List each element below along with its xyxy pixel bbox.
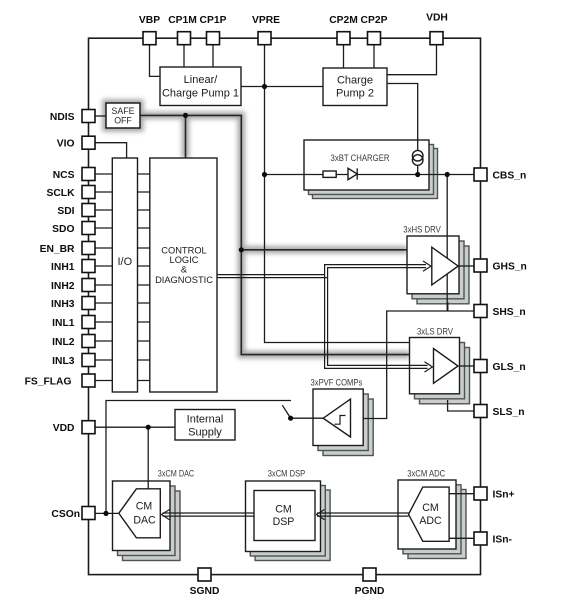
block U10 3xCM DAC (stacked) xyxy=(113,481,181,561)
svg-text:INL1: INL1 xyxy=(52,318,75,329)
block U9 Internal Supply xyxy=(175,410,235,441)
pin ISn+ xyxy=(474,487,515,501)
pin CSOn xyxy=(51,507,95,521)
svg-text:LOGIC: LOGIC xyxy=(170,255,199,265)
wire CP2M to U2 xyxy=(343,45,345,68)
wire ISn+ to U12 xyxy=(449,493,474,495)
svg-text:VBP: VBP xyxy=(139,15,160,26)
wire ladder U7 to U8 xyxy=(138,174,150,381)
svg-text:Supply: Supply xyxy=(188,427,222,439)
pin INH3 xyxy=(51,297,95,311)
svg-text:INL2: INL2 xyxy=(52,337,75,348)
wire U4 source to SHS line xyxy=(447,302,449,311)
arrowhead into U10 xyxy=(162,510,170,520)
svg-text:DIAGNOSTIC: DIAGNOSTIC xyxy=(155,275,213,285)
pin INH1 xyxy=(51,260,95,274)
pin SDI xyxy=(57,204,95,218)
pin GLS_n xyxy=(474,360,526,374)
svg-text:3xCM DSP: 3xCM DSP xyxy=(268,469,306,479)
wire SHS_n to U6 input xyxy=(363,311,474,419)
wire U5 source to SLS_n xyxy=(448,400,474,411)
pin PGND xyxy=(355,568,385,597)
pin SLS_n xyxy=(474,405,525,419)
wire charger output to CBS_n xyxy=(265,174,475,176)
safe-off glow halo xyxy=(106,103,410,355)
pin VPRE xyxy=(252,15,280,45)
svg-text:SGND: SGND xyxy=(190,586,220,597)
wire bus U12 to U11 (double line) xyxy=(317,513,409,516)
svg-text:ISn-: ISn- xyxy=(493,535,513,546)
block U4 3xHS DRV (stacked) xyxy=(407,236,469,304)
pin NDIS xyxy=(50,110,95,124)
pin VDH xyxy=(426,13,448,45)
wire NDIS to SAFE OFF xyxy=(95,115,106,117)
pin VIO xyxy=(57,136,95,150)
wire VBP to U1 xyxy=(150,45,161,77)
wire INL1 to U7 xyxy=(95,321,112,323)
svg-text:SLS_n: SLS_n xyxy=(493,407,525,418)
block U6 3xPVF COMPs (stacked) xyxy=(313,389,373,456)
wire INH3 to U7 xyxy=(95,302,112,304)
DAC pentagon in U10 xyxy=(119,489,161,538)
svg-text:INH1: INH1 xyxy=(51,262,75,273)
svg-text:OFF: OFF xyxy=(114,116,132,126)
wire CP2P to U2 xyxy=(373,45,375,68)
svg-text:CM: CM xyxy=(275,503,291,515)
wire FS_FLAG to U7 xyxy=(95,380,112,382)
block U7 I/O xyxy=(112,158,137,392)
wire U5 output to GLS_n xyxy=(460,365,475,367)
svg-text:CONTROL: CONTROL xyxy=(161,246,206,256)
pin NCS xyxy=(53,168,95,182)
pin SCLK xyxy=(46,186,95,200)
node current source output xyxy=(415,172,420,177)
node VPRE x CP1-CP2 xyxy=(262,84,267,89)
node safe-off branch xyxy=(183,113,188,118)
block U1 Linear/Charge Pump 1 xyxy=(160,67,241,106)
svg-text:ISn+: ISn+ xyxy=(493,490,515,501)
wire VPRE rail down to U5 xyxy=(265,45,410,343)
svg-text:INL3: INL3 xyxy=(52,356,75,367)
svg-text:3xHS DRV: 3xHS DRV xyxy=(403,225,441,235)
wire VDD to U9 xyxy=(95,426,175,428)
svg-text:SHS_n: SHS_n xyxy=(493,307,526,318)
pin CP1M xyxy=(168,15,197,45)
svg-text:DAC: DAC xyxy=(133,515,156,527)
wire INH1 to U7 xyxy=(95,265,112,267)
pin SDO xyxy=(52,222,95,236)
svg-text:3xPVF COMPs: 3xPVF COMPs xyxy=(311,378,363,388)
wire U4 output to GHS_n xyxy=(458,265,474,267)
svg-text:PGND: PGND xyxy=(355,586,385,597)
wire switch to U6 output xyxy=(291,417,324,419)
driver triangle in U4 xyxy=(432,247,458,285)
pin SGND xyxy=(190,568,220,597)
node switch pivot xyxy=(288,416,293,421)
wire VDD branch to U10 xyxy=(147,427,149,489)
wire INL3 to U7 xyxy=(95,359,112,361)
svg-text:CP2P: CP2P xyxy=(361,15,388,26)
switch SW1 blade xyxy=(282,405,290,418)
pin INL3 xyxy=(52,354,95,368)
svg-text:VDD: VDD xyxy=(53,423,75,434)
pin VBP xyxy=(139,15,160,45)
pin CP1P xyxy=(200,15,227,45)
wire INH2 to U7 xyxy=(95,284,112,286)
svg-text:ADC: ADC xyxy=(419,515,442,527)
current source I1 xyxy=(412,150,423,165)
svg-text:VDH: VDH xyxy=(426,13,448,24)
svg-text:Pump 2: Pump 2 xyxy=(336,88,374,100)
DSP inner box in U11 xyxy=(254,491,315,541)
wire NCS to U7 xyxy=(95,173,112,175)
svg-text:SCLK: SCLK xyxy=(46,188,75,199)
svg-text:FS_FLAG: FS_FLAG xyxy=(25,377,72,388)
driver triangle in U5 xyxy=(434,349,459,384)
wire gate bus U8 to U4 (double line) xyxy=(217,265,426,278)
svg-text:SAFE: SAFE xyxy=(112,106,135,116)
wire CP1P to U1 xyxy=(212,45,214,67)
arrowhead into U4 xyxy=(423,261,431,271)
svg-text:&: & xyxy=(181,265,188,275)
svg-text:CSOn: CSOn xyxy=(51,509,80,520)
wire U1 to U2 xyxy=(241,86,323,88)
svg-text:CP2M: CP2M xyxy=(329,15,358,26)
wire CBS bootstrap down through U4 to SHS xyxy=(446,175,448,312)
SAFE OFF block xyxy=(106,103,140,128)
ADC pentagon in U12 xyxy=(409,487,450,541)
svg-text:SDI: SDI xyxy=(57,206,74,217)
node VDD branch xyxy=(146,425,151,430)
svg-text:Linear/: Linear/ xyxy=(184,74,219,86)
svg-text:GHS_n: GHS_n xyxy=(493,262,527,273)
svg-text:VIO: VIO xyxy=(57,139,75,150)
pin INH2 xyxy=(51,279,95,293)
pin SHS_n xyxy=(474,305,526,319)
node CBS branch xyxy=(445,172,450,177)
block U5 3xLS DRV (stacked) xyxy=(410,338,470,404)
arrowhead into U5 xyxy=(425,362,433,372)
block U8 CONTROL LOGIC & DIAGNOSTIC xyxy=(150,158,217,392)
svg-text:I/O: I/O xyxy=(117,256,132,268)
svg-text:CM: CM xyxy=(422,502,438,514)
node CSOn junction xyxy=(103,511,108,516)
svg-text:NCS: NCS xyxy=(53,170,75,181)
pin CP2M xyxy=(329,15,358,45)
pin CP2P xyxy=(361,15,388,45)
svg-text:Internal: Internal xyxy=(187,414,224,426)
svg-text:CP1P: CP1P xyxy=(200,15,227,26)
block U11 3xCM DSP (stacked) xyxy=(246,481,331,561)
pin CBS_n xyxy=(474,168,526,182)
wire SCLK to U7 xyxy=(95,191,112,193)
block U3 3xBT CHARGER (stacked) xyxy=(304,140,438,199)
wire SDI to U7 xyxy=(95,209,112,211)
pin GHS_n xyxy=(474,259,527,273)
svg-text:INH2: INH2 xyxy=(51,281,75,292)
svg-text:GLS_n: GLS_n xyxy=(493,362,526,373)
wire CP1M to U1 xyxy=(183,45,185,67)
block U12 3xCM ADC (stacked) xyxy=(398,480,466,559)
svg-text:Charge Pump 1: Charge Pump 1 xyxy=(162,88,239,100)
wire U2 to current source xyxy=(387,84,418,175)
wire INL2 to U7 xyxy=(95,340,112,342)
svg-text:DSP: DSP xyxy=(273,516,295,528)
wire switch net to CSOn node xyxy=(106,401,291,514)
svg-text:CP1M: CP1M xyxy=(168,15,197,26)
block U2 Charge Pump 2 xyxy=(323,68,387,106)
wire SDO to U7 xyxy=(95,227,112,229)
svg-text:NDIS: NDIS xyxy=(50,112,75,123)
svg-text:3xLS DRV: 3xLS DRV xyxy=(417,327,453,337)
diode D1 xyxy=(348,168,357,179)
wire gate bus down to U5 (double line) xyxy=(325,275,428,369)
pin ISn- xyxy=(474,532,513,546)
resistor R1 xyxy=(323,171,336,177)
pin VDD xyxy=(53,421,95,435)
pin EN_BR xyxy=(40,242,95,256)
node glow HS branch xyxy=(239,247,244,252)
svg-text:INH3: INH3 xyxy=(51,299,75,310)
svg-text:CBS_n: CBS_n xyxy=(493,171,527,182)
svg-text:CM: CM xyxy=(136,501,152,513)
wire EN_BR to U7 xyxy=(95,247,112,249)
pin FS_FLAG xyxy=(25,374,95,388)
comparator triangle in U6 xyxy=(323,399,350,437)
safe-off glow core wires xyxy=(140,115,410,354)
svg-text:EN_BR: EN_BR xyxy=(40,244,75,255)
svg-text:3xCM DAC: 3xCM DAC xyxy=(158,469,195,479)
node VPRE x charger xyxy=(262,172,267,177)
wire VIO to U7 xyxy=(95,143,127,158)
svg-text:SDO: SDO xyxy=(52,224,74,235)
svg-text:VPRE: VPRE xyxy=(252,15,280,26)
svg-text:3xCM ADC: 3xCM ADC xyxy=(407,469,446,479)
wire ISn- to U12 xyxy=(449,537,474,539)
svg-text:3xBT CHARGER: 3xBT CHARGER xyxy=(331,153,390,163)
chip outline xyxy=(89,38,481,574)
pin INL2 xyxy=(52,335,95,349)
arrowhead into U11 xyxy=(317,510,325,520)
svg-text:Charge: Charge xyxy=(337,75,373,87)
pin INL1 xyxy=(52,316,95,330)
wire CSOn to U10 xyxy=(95,512,119,514)
wire VDH to U2 xyxy=(387,45,437,75)
wire bus U11 to U10 (double line) xyxy=(163,513,255,516)
